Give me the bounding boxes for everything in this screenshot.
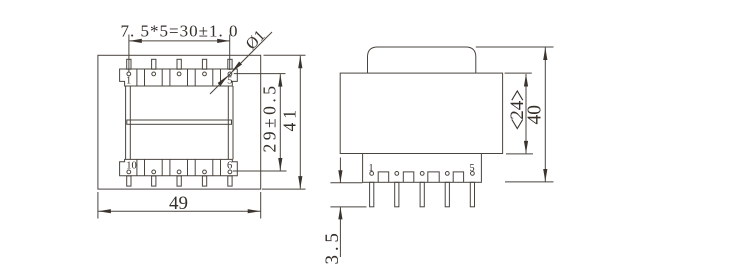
leader arrow upper <box>232 61 242 71</box>
dimension 40 line <box>544 48 546 182</box>
dimension 3.5 down arrow <box>338 170 342 183</box>
dimension 49 line <box>98 210 261 212</box>
pin 4 (top row) <box>202 59 206 69</box>
svg-text:41: 41 <box>280 106 300 132</box>
pin 10 (bottom row) <box>127 176 131 186</box>
dimension 7.5*5=30 left arrow <box>129 39 142 43</box>
svg-text:49: 49 <box>169 193 188 214</box>
pin 6 (bottom row) <box>228 176 232 186</box>
svg-text:6: 6 <box>227 160 232 171</box>
dimension 41 line <box>299 56 301 189</box>
dimension 24 line <box>525 74 527 153</box>
dimension 3.5 line upper <box>339 158 341 183</box>
dimension 49 extension lines <box>98 192 261 219</box>
svg-text:5: 5 <box>227 75 232 86</box>
dimension 40 extension lines <box>476 47 554 182</box>
dimension 3.5 extension lines <box>330 183 366 207</box>
pin hole 5 <box>228 72 232 76</box>
pin 7 (bottom row) <box>202 176 206 186</box>
pin hole 6 <box>228 170 232 174</box>
svg-text:40: 40 <box>524 105 545 125</box>
dimension 7.5*5=30 extension lines <box>129 35 230 72</box>
dimension 40 top arrow <box>543 48 547 61</box>
dimension 29 extension lines <box>233 74 287 171</box>
bobbin side walls <box>126 86 233 159</box>
pin hole 3 <box>177 72 181 76</box>
pin hole 2 <box>152 72 156 76</box>
core outline (left plan view) <box>98 55 261 189</box>
angle bracket top <box>512 91 523 100</box>
pin 9 (bottom row) <box>152 176 156 186</box>
dimension 24 extension lines <box>505 73 533 154</box>
bottom flange (left view) <box>120 159 238 175</box>
pin 3 (side view) <box>420 182 424 207</box>
leader arrow lower <box>218 76 228 86</box>
svg-text:7. 5*5=30±1. 0: 7. 5*5=30±1. 0 <box>121 22 239 41</box>
winding tape band <box>127 120 232 124</box>
svg-text:1: 1 <box>368 163 373 174</box>
dimension 7.5*5=30 right arrow <box>217 39 230 43</box>
flange hole 2 <box>395 172 399 176</box>
flange hole 1 <box>370 172 374 176</box>
svg-text:3.5: 3.5 <box>322 229 343 264</box>
dimension 41 top arrow <box>298 56 302 69</box>
svg-text:29±0.5: 29±0.5 <box>260 83 280 153</box>
dimension 29 top arrow <box>278 74 282 87</box>
coil bump <box>368 47 476 73</box>
pin 1 (side view) <box>370 182 374 207</box>
dimension 29 bottom arrow <box>278 158 282 171</box>
leader line for hole diameter <box>210 32 272 94</box>
pin 2 (top row) <box>152 59 156 69</box>
svg-text:1: 1 <box>126 75 131 86</box>
dimension 7.5*5=30 dimension line <box>129 40 229 42</box>
core outline (right side view) <box>340 73 502 153</box>
pin 2 (side view) <box>395 182 399 207</box>
dimension 41 bottom arrow <box>298 176 302 189</box>
svg-text:5: 5 <box>469 163 474 174</box>
pin seat block 2 <box>403 172 414 182</box>
pin 8 (bottom row) <box>177 176 181 186</box>
dimension 3.5 up arrow <box>338 207 342 220</box>
pin hole 8 <box>177 170 181 174</box>
pin hole 4 <box>203 72 207 76</box>
svg-text:Ø1: Ø1 <box>243 27 269 53</box>
flange hole 4 <box>445 172 449 176</box>
bottom flange slot lines <box>137 159 221 175</box>
angle bracket bottom <box>512 119 523 128</box>
pin 5 (side view) <box>470 182 474 207</box>
pin seat block 3 <box>428 172 439 182</box>
pin 4 (side view) <box>445 182 449 207</box>
dimension 24 bottom arrow <box>524 141 528 154</box>
pin seat block 4 <box>453 172 463 182</box>
flange hole 5 <box>471 172 475 176</box>
pin seat block 1 <box>378 172 389 182</box>
dimension 24 top arrow <box>524 74 528 87</box>
dimension 3.5 line lower <box>339 207 341 257</box>
svg-text:10: 10 <box>126 160 137 171</box>
top flange (left view) <box>120 69 238 86</box>
dimension 40 bottom arrow <box>543 169 547 182</box>
pin hole 9 <box>152 170 156 174</box>
dimension 41 extension lines <box>262 55 306 189</box>
flange hole 3 <box>420 172 424 176</box>
dimension 49 left arrow <box>98 209 111 213</box>
pin hole 7 <box>203 170 207 174</box>
pin hole 10 <box>127 170 131 174</box>
dimension 49 right arrow <box>248 209 261 213</box>
pin 5 (top row) <box>228 59 232 69</box>
pin hole 1 <box>127 72 131 76</box>
pin 3 (top row) <box>177 59 181 69</box>
top flange slot lines <box>137 69 221 86</box>
dimension 29 line <box>279 74 281 170</box>
pin 1 (top row) <box>127 59 131 69</box>
bottom flange (side view) <box>363 154 482 183</box>
